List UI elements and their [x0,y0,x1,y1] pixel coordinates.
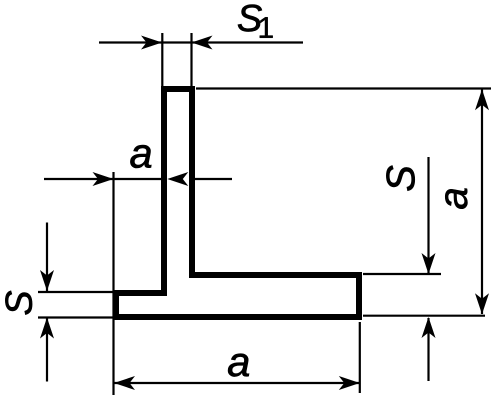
arrowhead a-bottom left [114,376,135,390]
wire S-right extension line [363,273,441,275]
wire S-left extension line lower [38,316,114,318]
label S left rotated [5,291,32,315]
arrowhead S-right down [422,253,436,274]
wire a-right extension line bottom [363,315,485,317]
arrowhead a-right up [475,89,489,110]
label S right rotated [386,166,414,191]
arrowhead a-bottom right [339,376,360,390]
label S1 letter S [238,5,262,32]
wire S-right dimension line lower [427,318,429,381]
arrowhead S1 right [192,36,213,50]
wire S-left dimension line lower [46,318,48,382]
label a right rotated [445,189,467,209]
wire a-mid dimension line [44,178,232,180]
arrowhead a-mid right [167,172,188,186]
arrowhead a-mid left [93,172,114,186]
wire a-bottom extension line right [359,322,361,393]
arrowhead S-right up [422,317,436,338]
arrowhead S-left up [40,318,54,339]
label a bottom [228,354,249,377]
label a mid [130,145,151,168]
arrowhead S-left down [40,270,54,291]
wire S1 dimension line [99,41,303,43]
wire S1 extension line right [190,33,192,88]
wire a-right dimension line [481,89,483,314]
wire S-left dimension line upper [46,223,48,292]
wire a-bottom dimension line [114,382,360,384]
profile T-angle outline [116,89,359,317]
arrowhead S1 left [141,36,162,50]
wire S1 extension line left [161,33,163,88]
arrowhead a-right down [475,293,489,314]
wire a-mid extension line [112,172,114,395]
wire S-right dimension line upper [427,157,429,274]
wire S-left extension line upper [38,291,114,293]
label S1 subscript 1 [260,17,273,38]
wire a-right extension line top [196,87,491,89]
